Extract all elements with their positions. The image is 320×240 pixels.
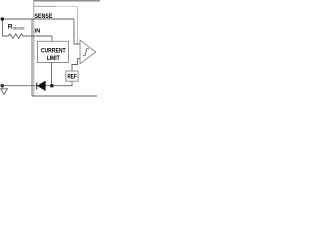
node junction bottom-center — [50, 84, 54, 88]
wire IN drop to current limit — [51, 36, 53, 42]
IC box — [34, 1, 78, 96]
wire top SENSE net — [3, 19, 81, 44]
diode D1 — [36, 82, 38, 89]
node junction top-left — [1, 17, 5, 21]
ground — [1, 86, 8, 95]
node junction bottom-left — [1, 84, 5, 88]
svg-text:RSENSE: RSENSE — [8, 23, 26, 30]
REF box — [66, 71, 78, 81]
wire left rail — [2, 19, 4, 36]
wire REF to op-amp — [72, 59, 80, 71]
wire bottom rail — [32, 95, 97, 97]
svg-text:REF: REF — [67, 74, 77, 81]
wire outer drop to bottom rail — [31, 19, 33, 96]
resistor RSENSE — [3, 34, 53, 39]
cropped top rail of IC box — [33, 0, 100, 3]
current limit box U1 — [38, 41, 69, 62]
wire bottom net — [3, 81, 73, 86]
svg-text:LIMIT: LIMIT — [47, 55, 60, 62]
op-amp U2 — [80, 40, 96, 64]
op-amp gate symbol — [83, 48, 88, 55]
svg-text:IN: IN — [35, 28, 41, 34]
svg-text:SENSE: SENSE — [34, 13, 52, 20]
wire current limit to bottom node — [51, 62, 53, 85]
svg-text:CURRENT: CURRENT — [41, 48, 66, 55]
